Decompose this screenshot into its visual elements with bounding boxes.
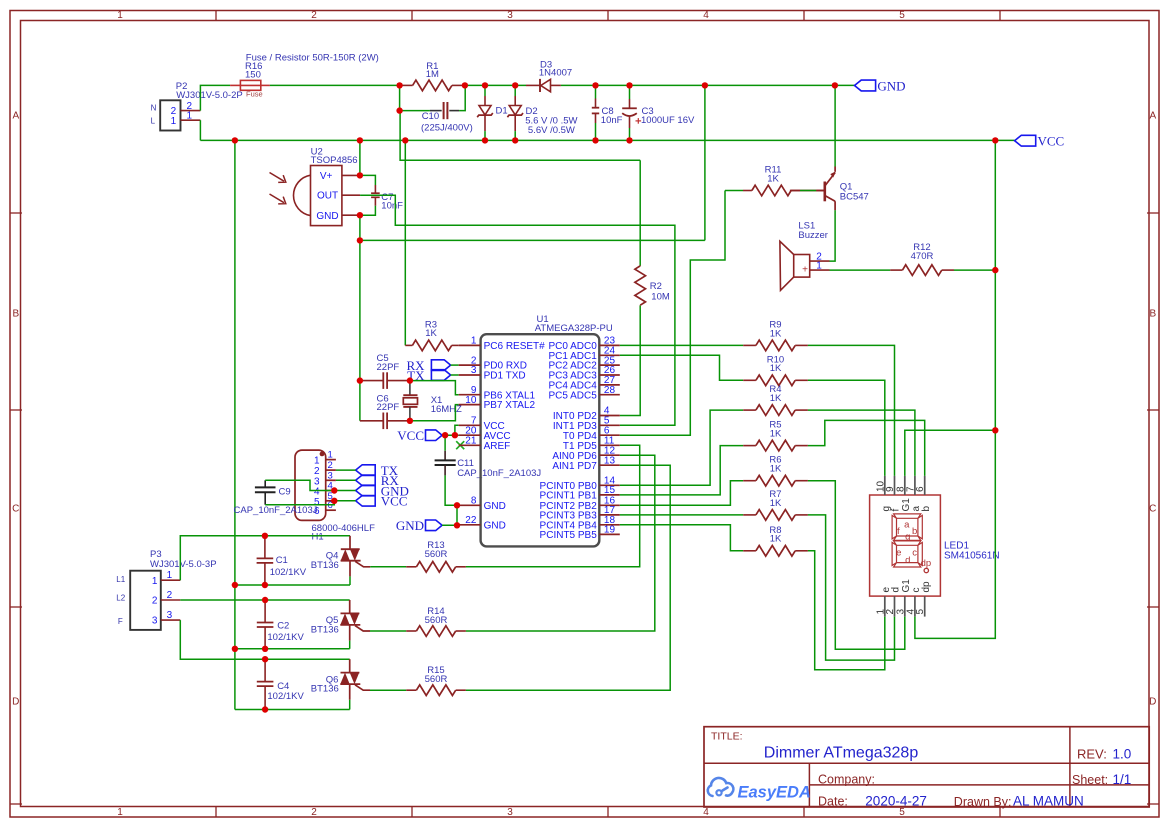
capacitor C5 [360, 380, 383, 382]
svg-text:REV:: REV: [1077, 747, 1107, 762]
U1 pin 19 PCINT5 PB5 [599, 533, 620, 535]
U1 pin 28 PC5 ADC5 [599, 394, 620, 396]
no connect X at AREF [456, 441, 464, 449]
triac Q4 gate lead [355, 561, 370, 566]
U1 pin 24 PC1 ADC1 [599, 354, 620, 356]
svg-text:470R: 470R [911, 251, 934, 262]
wire Q1 to GND rail [834, 85, 836, 166]
svg-text:TSOP4856: TSOP4856 [311, 155, 358, 166]
P2 pin 2 stub [181, 110, 201, 112]
svg-text:H1: H1 [312, 532, 324, 543]
wire R10 to LED pin10 [808, 380, 885, 476]
svg-text:VCC: VCC [381, 494, 408, 509]
resistor R2 [639, 160, 641, 265]
wire D3 to GND flag [561, 84, 855, 86]
zener D1 [484, 85, 486, 96]
svg-text:c: c [912, 548, 917, 559]
svg-text:F: F [118, 617, 123, 626]
wire R12 to VCC vertical [954, 269, 995, 271]
connector P3 box [130, 571, 161, 630]
svg-text:1K: 1K [770, 498, 782, 509]
svg-text:560R: 560R [425, 615, 448, 626]
capacitor C8 [595, 85, 597, 98]
H1 pin 4 [326, 490, 336, 492]
svg-text:PCINT1 PB1: PCINT1 PB1 [540, 491, 598, 502]
svg-text:ATMEGA328P-PU: ATMEGA328P-PU [535, 323, 613, 334]
U1 pin 13 AIN1 PD7 [599, 464, 620, 466]
U1 pin 7 VCC [459, 424, 481, 426]
svg-text:5.6V /0.5W: 5.6V /0.5W [528, 125, 575, 136]
wire IR gnd down to C5 C6 [359, 240, 361, 420]
wire R15 to pin13 [466, 465, 670, 690]
LED1 top pin 7 [914, 476, 916, 495]
svg-text:1K: 1K [770, 429, 782, 440]
svg-text:L2: L2 [116, 594, 125, 603]
svg-text:2: 2 [167, 590, 173, 601]
svg-text:OUT: OUT [317, 191, 338, 202]
capacitor C10 [400, 110, 430, 112]
LED1 bottom pin 3 [904, 596, 906, 617]
wire pin8 to pin22 [456, 505, 458, 525]
resistor R11 [725, 190, 743, 192]
svg-text:GND: GND [484, 501, 506, 512]
svg-text:C2: C2 [277, 621, 289, 632]
svg-text:TITLE:: TITLE: [711, 731, 743, 743]
svg-text:6: 6 [915, 486, 926, 492]
LS1 pin 1 stub [810, 269, 830, 271]
svg-text:1/1: 1/1 [1113, 772, 1132, 787]
net flag TX [431, 370, 450, 381]
triac Q6 [349, 659, 351, 672]
microcontroller U1 box [481, 334, 600, 546]
svg-text:D: D [12, 697, 19, 708]
U1 pin 21 AREF [459, 444, 481, 446]
svg-text:AIN1 PD7: AIN1 PD7 [552, 461, 597, 472]
C3 plus sign [636, 120, 642, 122]
wire R7 to LED pin2 [808, 515, 895, 660]
svg-text:VCC: VCC [1038, 134, 1065, 149]
wire neutral vertical [234, 140, 236, 709]
net flag GND at pin22 [426, 520, 443, 531]
svg-text:1K: 1K [770, 464, 782, 475]
EasyEDA logo cloud [708, 778, 734, 796]
svg-text:VCC: VCC [397, 428, 424, 443]
LED1 bottom pin 1 [884, 596, 886, 617]
svg-text:1K: 1K [770, 393, 782, 404]
wire Q5 bottom row [235, 648, 350, 650]
svg-text:BT136: BT136 [311, 684, 339, 695]
U1 pin 4 INT0 PD2 [599, 415, 620, 417]
svg-text:8: 8 [471, 496, 477, 507]
svg-text:dp: dp [921, 558, 932, 569]
wire pin23 to R9 [620, 344, 743, 346]
svg-text:D1: D1 [496, 106, 508, 117]
wire R14 to pin12 [466, 455, 655, 631]
svg-text:1: 1 [117, 10, 123, 21]
VCC rail wire [200, 139, 1014, 141]
wire P2 pin2 to fuse [200, 85, 230, 110]
title block row line 1 [704, 762, 1149, 764]
net flag RX [431, 360, 450, 371]
wire pin17 to R7 [620, 514, 743, 516]
svg-text:22PF: 22PF [377, 402, 400, 413]
wire Q1 emitter down to buzzer pin2 [830, 210, 836, 261]
resistor R8 [743, 550, 756, 552]
U1 pin 18 PCINT4 PB4 [599, 524, 620, 526]
LED1 top pin 6 [924, 476, 926, 495]
U1 pin 22 GND [459, 524, 481, 526]
wire H1 pin4 to GND [336, 490, 356, 492]
svg-text:22PF: 22PF [377, 362, 400, 373]
U1 pin 25 PC2 ADC2 [599, 364, 620, 366]
wire VCC to R3 [404, 140, 406, 345]
svg-text:5: 5 [915, 609, 926, 615]
U1 pin 2 PD0 RXD [459, 364, 481, 366]
svg-text:1: 1 [152, 576, 158, 587]
wire pin18 to R8 [620, 525, 743, 551]
wire IR OUT to INT1 pin5 [360, 195, 675, 425]
connector P2 box [160, 100, 180, 130]
svg-text:B: B [1149, 309, 1156, 320]
resistor R3 [405, 344, 412, 346]
svg-text:1.0: 1.0 [1113, 747, 1132, 762]
svg-text:1: 1 [314, 456, 320, 467]
P3 pin 3 stub [161, 619, 181, 621]
svg-text:dp: dp [921, 581, 932, 593]
triac Q6 gate lead [355, 685, 370, 690]
wire P2 pin1 to VCC rail [199, 120, 201, 140]
wire pin15 to R5 [620, 446, 743, 495]
resistor R12 [890, 269, 902, 271]
svg-text:1: 1 [117, 807, 123, 818]
U2 dome [293, 175, 310, 215]
U1 pin 26 PC3 ADC3 [599, 374, 620, 376]
H1 pin 3 [326, 479, 336, 481]
wire R9 to LED pin9 [808, 345, 895, 476]
wire R6 to LED pin3 [808, 481, 905, 650]
IR receiver U2 box [311, 166, 342, 226]
LED1 seven segment upper [894, 514, 921, 518]
wire H1 pin2 to TX [336, 469, 356, 471]
H1 pin1 marker dot [320, 452, 325, 457]
H1 pin 2 [326, 469, 336, 471]
wire GND flag to pin22 [442, 524, 459, 526]
wire C11 to GND pin8 [445, 475, 459, 505]
svg-text:D: D [1149, 697, 1156, 708]
title block row line 2 [809, 784, 1149, 786]
wire R5 to LED pin6 [808, 420, 925, 476]
wire R2 to INT0 pin4 [620, 306, 640, 416]
resistor R4 [743, 409, 756, 411]
svg-text:A: A [12, 111, 19, 122]
P3 pin 2 stub [161, 599, 181, 601]
svg-text:e: e [896, 548, 901, 559]
svg-text:Sheet:: Sheet: [1072, 773, 1108, 787]
wire R4 to LED pin7 [808, 410, 915, 476]
wire RX to pin2 [451, 364, 459, 366]
zener D2 [514, 85, 516, 96]
svg-text:560R: 560R [425, 549, 448, 560]
resistor R15 [370, 689, 406, 691]
U1 pin 1 PC6 RESET# [459, 344, 481, 346]
svg-text:28: 28 [604, 385, 616, 396]
wire pin6 to R11 [620, 191, 725, 436]
resistor R10 [743, 379, 756, 381]
svg-text:GND: GND [877, 78, 905, 93]
U2 IR arrows [270, 173, 286, 183]
svg-text:1000UF 16V: 1000UF 16V [641, 115, 695, 126]
svg-text:5: 5 [899, 10, 905, 21]
svg-text:AL MAMUN: AL MAMUN [1013, 794, 1084, 809]
U1 pin 8 GND [459, 504, 481, 506]
svg-text:C10: C10 [422, 111, 439, 122]
svg-text:PC5 ADC5: PC5 ADC5 [548, 390, 597, 401]
capacitor C3 polarized [629, 85, 631, 99]
svg-text:1K: 1K [770, 534, 782, 545]
svg-text:GND: GND [316, 211, 338, 222]
triac Q5 [349, 600, 351, 613]
svg-text:b: b [921, 506, 932, 512]
transistor Q1 [823, 182, 826, 202]
buzzer LS1 [794, 255, 810, 278]
diode D3 [526, 84, 540, 86]
display LED1 box [870, 495, 941, 596]
svg-text:4: 4 [703, 10, 709, 21]
P3 pin 1 stub [161, 579, 181, 581]
svg-text:1: 1 [187, 111, 193, 122]
svg-text:SM410561N: SM410561N [944, 551, 1000, 562]
frame column ticks [215, 11, 217, 21]
svg-text:g: g [905, 532, 910, 543]
capacitor C11 [444, 435, 446, 451]
svg-text:1: 1 [816, 261, 822, 272]
svg-text:Buzzer: Buzzer [798, 230, 828, 241]
title block rev column line [1069, 727, 1071, 807]
wire branch to VCC pin7 [455, 425, 459, 435]
svg-text:N: N [151, 104, 157, 113]
wire C9 top to H1 pin4 [265, 480, 334, 490]
wire Q4 bottom row [235, 584, 350, 586]
svg-text:2: 2 [311, 10, 317, 21]
svg-text:B: B [12, 309, 19, 320]
wire R13 to pin11 [466, 445, 640, 567]
svg-text:1: 1 [328, 450, 333, 461]
svg-text:GND: GND [396, 518, 424, 533]
svg-text:L1: L1 [116, 575, 125, 584]
svg-text:(225J/400V): (225J/400V) [421, 123, 473, 134]
H1 pin 6 [326, 509, 336, 511]
svg-text:102/1KV: 102/1KV [267, 632, 304, 643]
resistor R13 [370, 566, 406, 568]
svg-text:Drawn By:: Drawn By: [954, 795, 1012, 809]
LED1 bottom pin 5 [924, 596, 926, 617]
wire R8 to LED pin1 [808, 551, 885, 670]
header H1 box [295, 450, 326, 520]
svg-text:C1: C1 [276, 555, 288, 566]
svg-text:C9: C9 [279, 486, 291, 497]
wire P3 pin3 to C4 row [180, 620, 349, 659]
svg-text:1K: 1K [425, 328, 437, 339]
svg-text:GND: GND [484, 520, 506, 531]
U1 pin 12 AIN0 PD6 [599, 454, 620, 456]
svg-text:16MHZ: 16MHZ [431, 404, 462, 415]
wire P3 pin1 to C1 row [180, 536, 350, 580]
capacitor C4 [264, 659, 266, 681]
LED1 top pin 9 [894, 476, 896, 495]
svg-text:1: 1 [167, 570, 173, 581]
svg-text:PC6 RESET#: PC6 RESET# [484, 341, 546, 352]
svg-text:1K: 1K [767, 173, 779, 184]
svg-text:21: 21 [465, 436, 477, 447]
svg-text:Fuse / Resistor 50R-150R (2W): Fuse / Resistor 50R-150R (2W) [246, 52, 379, 63]
U1 pin 17 PCINT3 PB3 [599, 514, 620, 516]
U1 pin 23 PC0 ADC0 [599, 344, 620, 346]
U2 pin stubs [342, 174, 360, 176]
resistor R6 [743, 480, 756, 482]
svg-text:CAP_10nF_2A103J: CAP_10nF_2A103J [234, 505, 318, 516]
U1 pin 9 PB6 XTAL1 [459, 394, 481, 396]
svg-text:WJ301V-5.0-3P: WJ301V-5.0-3P [150, 559, 217, 570]
U1 pin 20 AVCC [459, 434, 481, 436]
svg-text:R2: R2 [650, 281, 662, 292]
svg-text:102/1KV: 102/1KV [270, 567, 307, 578]
LED1 bottom pin 2 [894, 596, 896, 617]
resistor R14 [370, 630, 406, 632]
triac Q5 gate lead [355, 626, 370, 631]
P2 pin 1 stub [181, 119, 201, 121]
svg-text:BT136: BT136 [311, 624, 339, 635]
svg-text:150: 150 [245, 69, 261, 80]
U1 pin 16 PCINT2 PB2 [599, 504, 620, 506]
svg-text:3: 3 [507, 10, 513, 21]
svg-text:Dimmer ATmega328p: Dimmer ATmega328p [764, 745, 919, 762]
svg-text:PCINT5 PB5: PCINT5 PB5 [540, 530, 598, 541]
LED1 bottom pin 4 [914, 596, 916, 617]
svg-text:BC547: BC547 [840, 192, 869, 203]
svg-text:102/1KV: 102/1KV [267, 691, 304, 702]
svg-text:3: 3 [167, 610, 173, 621]
U1 pin 27 PC4 ADC4 [599, 384, 620, 386]
wire zero cross feed [400, 111, 640, 161]
svg-text:1N4007: 1N4007 [539, 68, 572, 79]
U1 pin 5 INT1 PD3 [599, 424, 620, 426]
LED1 top pin 10 [884, 476, 886, 495]
svg-text:5: 5 [899, 807, 905, 818]
net flag TX at H1 [356, 465, 376, 476]
wire IR GND rail [359, 215, 361, 240]
LED1 seven segment lower [894, 541, 921, 545]
net flag VCC at AVCC [426, 429, 443, 431]
svg-text:1M: 1M [426, 69, 439, 80]
wire IR V+ vertical [359, 140, 361, 175]
svg-text:15: 15 [604, 485, 616, 496]
svg-text:BT136: BT136 [311, 560, 339, 571]
svg-text:3: 3 [152, 616, 158, 627]
U1 pin 10 PB7 XTAL2 [459, 404, 481, 406]
svg-text:1K: 1K [770, 328, 782, 339]
svg-text:10: 10 [465, 395, 477, 406]
svg-text:+: + [802, 265, 808, 276]
wire pin24 to R10 [620, 355, 743, 380]
svg-text:13: 13 [604, 455, 616, 466]
wire crystal bottom to XTAL2 pin10 [410, 405, 459, 421]
H1 pin 1 [326, 459, 336, 461]
wire LED pin8 to VCC line [905, 430, 996, 476]
svg-text:19: 19 [604, 525, 616, 536]
wire IR GND rail up to top GND [704, 85, 706, 240]
U1 pin 6 T0 PD4 [599, 434, 620, 436]
svg-text:560R: 560R [425, 674, 448, 685]
wire C9 bottom to H1 pin5 [265, 501, 334, 505]
capacitor C1 [264, 536, 266, 559]
wire VCC right vertical [915, 140, 995, 638]
wire pin14 to R4 [620, 410, 743, 485]
svg-text:f: f [897, 526, 900, 537]
svg-text:a: a [904, 520, 910, 531]
svg-text:2: 2 [152, 596, 158, 607]
svg-text:WJ301V-5.0-2P: WJ301V-5.0-2P [176, 90, 243, 101]
svg-text:A: A [1149, 111, 1156, 122]
svg-text:1: 1 [171, 116, 177, 127]
wire buzzer pin1 to R12 [830, 269, 891, 271]
wire pin16 to R6 [620, 481, 743, 506]
svg-text:2020-4-27: 2020-4-27 [865, 794, 927, 809]
resistor R9 [743, 344, 756, 346]
svg-text:1K: 1K [770, 363, 782, 374]
capacitor C9 [264, 480, 266, 487]
svg-text:22: 22 [465, 515, 477, 526]
frame row ticks [10, 212, 22, 214]
wire P3 pin2 to C2 row [180, 599, 349, 601]
wire H1 pin5 to VCC [336, 500, 356, 502]
title block box [704, 727, 1149, 807]
svg-text:4: 4 [703, 807, 709, 818]
svg-text:Company:: Company: [818, 773, 875, 787]
U1 pin 3 PD1 TXD [459, 374, 481, 376]
capacitor C7 loop [360, 175, 376, 185]
U1 pin 14 PCINT0 PB0 [599, 484, 620, 486]
wire Q6 bottom row [235, 709, 350, 711]
svg-text:10M: 10M [651, 292, 670, 303]
svg-text:10nF: 10nF [381, 201, 403, 212]
svg-text:V+: V+ [320, 171, 333, 182]
wire TX to pin3 [451, 374, 459, 376]
wire C10 right up to R1 right [459, 85, 465, 110]
fuse R16 [230, 84, 240, 86]
svg-text:1: 1 [471, 336, 477, 347]
svg-text:Fuse: Fuse [246, 90, 263, 99]
svg-text:EasyEDA: EasyEDA [738, 784, 811, 802]
wire TX node to XTAL1 pin9 [410, 381, 459, 395]
junction dots [396, 82, 402, 88]
svg-text:Date:: Date: [818, 795, 848, 809]
wire R1 left to C10 left [399, 85, 401, 110]
svg-text:C: C [12, 504, 19, 515]
svg-text:PB7 XTAL2: PB7 XTAL2 [484, 400, 536, 411]
svg-text:b: b [912, 526, 917, 537]
title block logo column line [808, 763, 810, 807]
net flag VCC right [1015, 135, 1036, 146]
capacitor C2 [264, 600, 266, 623]
svg-text:C: C [1149, 504, 1156, 515]
svg-text:3: 3 [507, 807, 513, 818]
triac Q4 [349, 536, 351, 549]
svg-text:2: 2 [311, 807, 317, 818]
wire fuse to R1 node [270, 84, 400, 86]
svg-text:3: 3 [471, 365, 477, 376]
svg-text:L: L [151, 116, 156, 125]
resistor R7 [743, 514, 756, 516]
